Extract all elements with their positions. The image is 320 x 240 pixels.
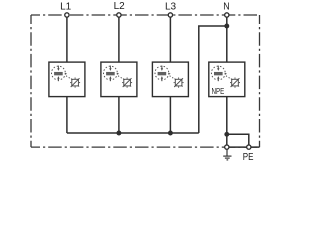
junction bus L3 — [168, 131, 173, 136]
junction N-PE — [224, 132, 229, 137]
svg-text:L1: L1 — [60, 1, 72, 12]
disconnector linkage — [168, 73, 175, 80]
terminal PE — [247, 145, 251, 149]
wire L2 drop — [118, 15, 120, 62]
terminal earth — [225, 145, 229, 149]
varistor element (dashed circle) — [104, 66, 118, 82]
terminal L3 — [168, 13, 172, 17]
disconnector linkage — [117, 73, 124, 80]
wire N branch to bus — [199, 26, 227, 133]
svg-text:N: N — [223, 1, 229, 12]
disconnector indicator — [122, 78, 132, 88]
wire L1 drop — [66, 15, 68, 62]
disconnector indicator — [174, 78, 184, 88]
enclosure border (dash-dot frame) — [31, 15, 260, 147]
wire box L1 bottom lead — [66, 97, 68, 133]
junction N — [224, 24, 229, 29]
SPD box 4 — [209, 62, 245, 97]
terminal L2 — [117, 13, 121, 17]
SPD box 3 — [152, 62, 188, 97]
varistor element (dashed circle) — [155, 66, 169, 82]
SPD box 2 — [101, 62, 137, 97]
varistor element (dashed circle) — [52, 66, 66, 82]
svg-text:NPE: NPE — [212, 87, 225, 96]
svg-text:L3: L3 — [165, 2, 177, 13]
disconnector indicator — [230, 78, 240, 88]
disconnector linkage — [225, 73, 232, 80]
svg-text:PE: PE — [243, 152, 254, 163]
wire bottom bus — [67, 132, 199, 134]
wire L3 drop — [169, 15, 171, 62]
wire earth to PE to border — [227, 146, 260, 148]
wire box L2 bottom lead — [118, 97, 120, 133]
ground symbol — [223, 150, 231, 160]
wire PE branch — [227, 134, 249, 147]
varistor element (dashed circle) — [211, 66, 225, 82]
wire box 4 bottom lead to earth terminal — [226, 97, 228, 148]
disconnector linkage — [65, 73, 72, 80]
wire box L3 bottom lead — [169, 97, 171, 133]
junction bus L2 — [116, 131, 121, 136]
SPD box 1 — [49, 62, 85, 97]
svg-text:L2: L2 — [114, 1, 126, 12]
terminal L1 — [65, 13, 69, 17]
disconnector indicator — [70, 78, 80, 88]
terminal N — [225, 13, 229, 17]
wire N drop — [226, 15, 228, 62]
